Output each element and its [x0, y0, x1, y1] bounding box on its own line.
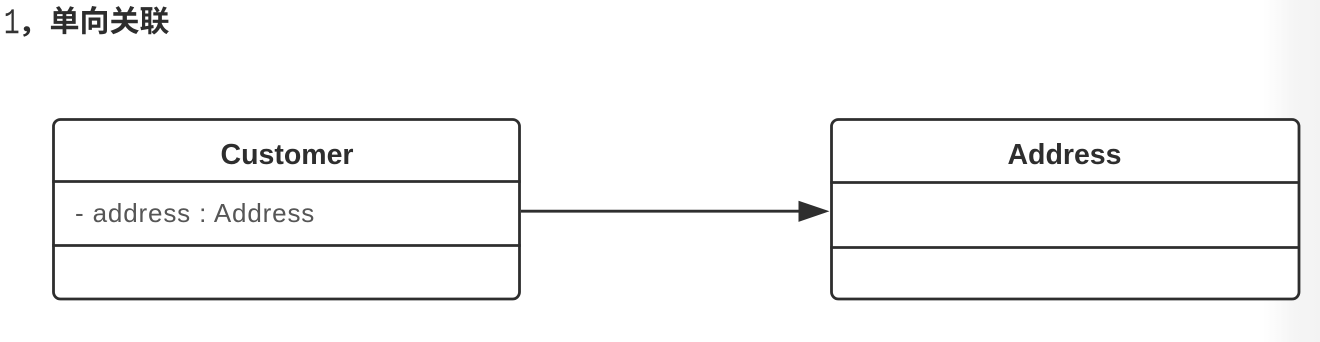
class box Address outline [832, 120, 1300, 300]
Customer separator line 1 [52, 180, 521, 183]
heading char dan 单 [51, 6, 78, 34]
heading digit 1 [6, 9, 19, 33]
class box Customer outline [54, 120, 520, 300]
svg-text:Address: Address [1007, 139, 1121, 171]
association wire shaft [521, 210, 800, 213]
page right edge shading [1263, 0, 1320, 342]
Customer separator line 2 [52, 244, 521, 247]
heading char guan 关 [110, 6, 138, 34]
Address separator line 1 [830, 181, 1300, 184]
association arrowhead [799, 201, 830, 222]
heading char lian 联 [140, 7, 169, 35]
heading char xiang 向 [82, 6, 107, 34]
Address separator line 2 [830, 246, 1300, 249]
svg-text:- address : Address: - address : Address [75, 198, 315, 228]
svg-text:Customer: Customer [220, 139, 353, 171]
heading char fullwidth comma ， [23, 26, 30, 36]
